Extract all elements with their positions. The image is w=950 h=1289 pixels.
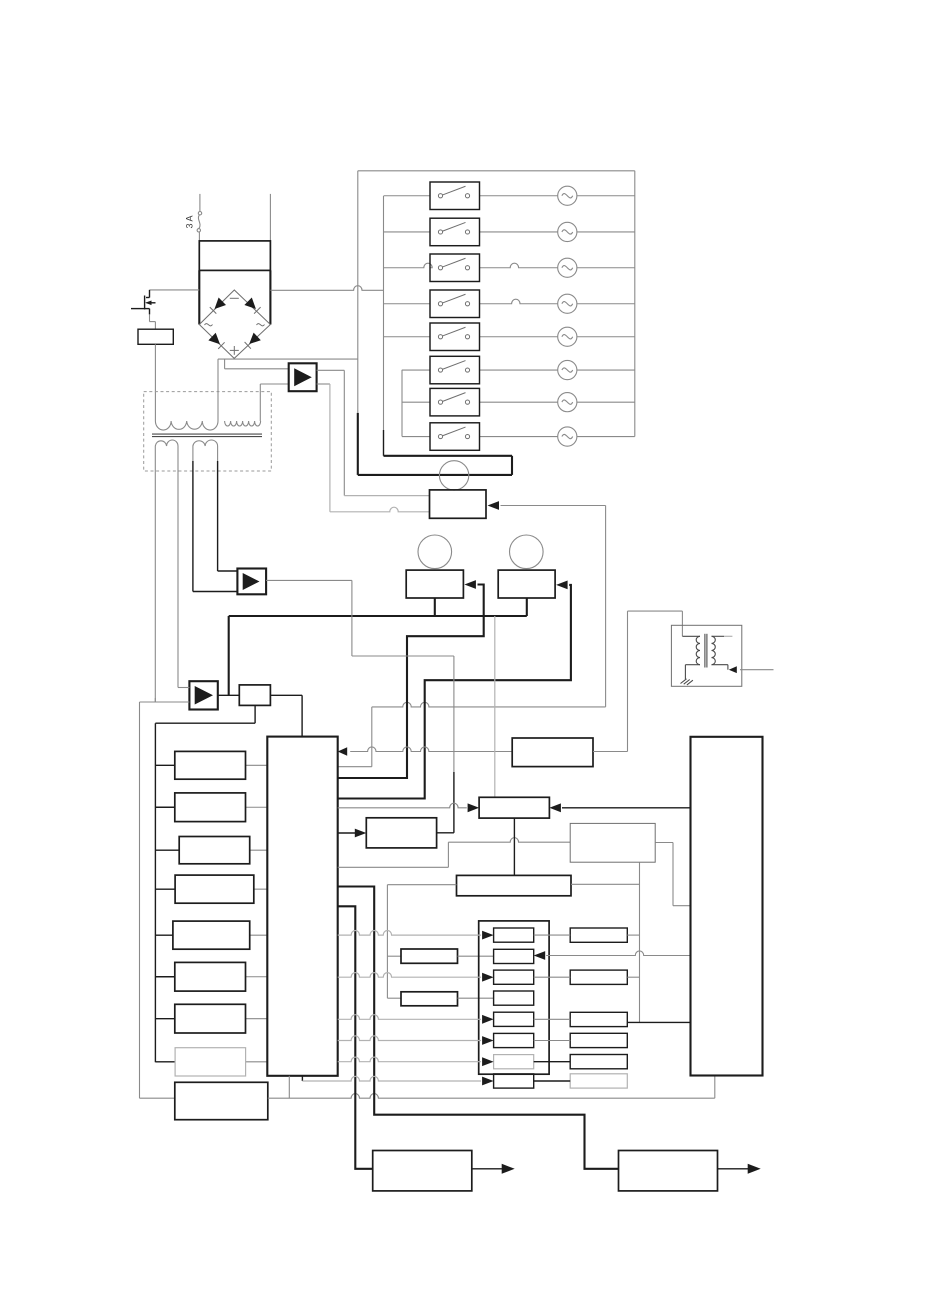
svg-text:3 A: 3 A (185, 215, 195, 228)
